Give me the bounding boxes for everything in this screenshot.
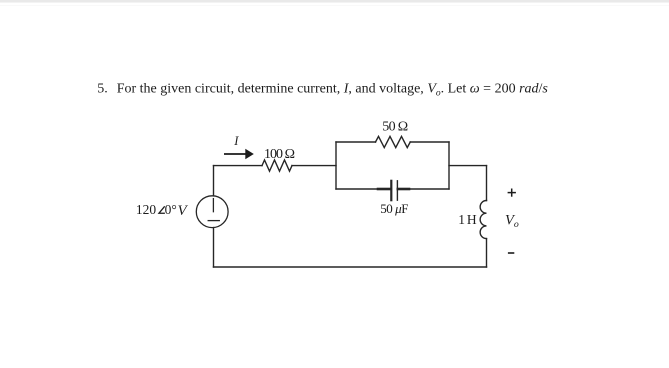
svg-text:1 H: 1 H xyxy=(458,212,477,227)
svg-text:0°: 0° xyxy=(165,202,177,217)
svg-text:120: 120 xyxy=(136,202,157,217)
svg-text:V: V xyxy=(178,203,189,219)
svg-text:For the given circuit, determi: For the given circuit, determine current… xyxy=(117,82,549,99)
svg-text:100 Ω: 100 Ω xyxy=(264,147,295,162)
svg-text:I: I xyxy=(233,134,239,148)
svg-text:5.: 5. xyxy=(97,82,108,97)
svg-text:50 Ω: 50 Ω xyxy=(382,119,408,134)
svg-text:50 μF: 50 μF xyxy=(380,201,408,216)
svg-text:Vo: Vo xyxy=(505,212,519,230)
